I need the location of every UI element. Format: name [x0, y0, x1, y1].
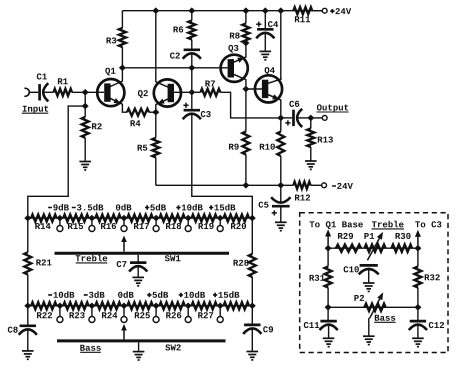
node Q2 base / R7 / C3 [188, 89, 195, 96]
wire R6 to C2 [191, 40, 193, 50]
node R2 / tone network feed [82, 103, 89, 110]
wire C1 to R1 [45, 91, 54, 93]
resistor R7 [192, 81, 221, 96]
switch contact treble -9dB [48, 204, 69, 232]
resistor R30 [392, 233, 413, 252]
capacitor C1 [37, 73, 49, 101]
resistor R17 [127, 215, 153, 229]
capacitor C4 [256, 11, 278, 39]
wire Q1 emitter down to R4 [122, 104, 127, 112]
resistor R1 [54, 78, 73, 96]
resistor R4 [127, 109, 149, 127]
ground C11 [323, 337, 335, 339]
transistor Q3 [221, 45, 248, 82]
wire P1 row [328, 247, 418, 249]
resistor R18 [159, 215, 184, 230]
resistor R32 [414, 248, 439, 307]
resistor R11 [293, 7, 312, 22]
capacitor C6 [285, 101, 302, 127]
wire C5 to ground [280, 206, 282, 222]
resistor R20 [224, 215, 250, 230]
transistor Q1 [97, 68, 124, 107]
wire C12 to ground [417, 325, 419, 338]
capacitor C12 [409, 307, 444, 330]
wire Q1 collector diagonal [108, 81, 123, 88]
switch contact treble +15dB [209, 204, 235, 232]
node treble chain [56, 215, 63, 222]
wire down to Q2 base node [191, 68, 193, 93]
switch SW2 bus [57, 341, 226, 351]
node P1 right [414, 245, 421, 252]
switch contact treble -3.5dB [72, 204, 104, 232]
node output / R13 [307, 115, 314, 122]
wire Q2 collector to rail [155, 11, 157, 82]
wire R3 to node [121, 47, 123, 68]
node bottom rail / R10 C5 [277, 182, 284, 189]
resistor R5 [138, 112, 160, 157]
resistor R13 [307, 118, 333, 147]
wiper P2 [370, 299, 380, 318]
resistor bass chain end [224, 302, 250, 309]
wire rail corner to R3 [121, 11, 123, 28]
wire output node to C6 [281, 117, 292, 119]
node C2 / base line [188, 65, 195, 72]
wire R13 to ground [310, 147, 312, 161]
wire Q3 collector down to node [245, 79, 247, 89]
resistor R21 [24, 218, 51, 306]
capacitor C7 [117, 255, 148, 272]
resistor R6 [174, 11, 196, 40]
ground P2 [363, 335, 375, 337]
wire C8 to ground [27, 330, 29, 351]
wire Q3 emitter diagonal [231, 57, 246, 63]
wire Q1 collector up [121, 68, 123, 82]
wire Q4 collector diagonal [265, 79, 282, 84]
resistor R8 [230, 11, 250, 43]
resistor R29 [336, 233, 361, 252]
wire to terminal [311, 117, 323, 119]
wire base line to Q3 [122, 67, 227, 69]
label To C3 [415, 221, 441, 227]
resistor R3 [107, 28, 126, 47]
terminal +24V [322, 8, 351, 14]
ground C12 [412, 337, 424, 339]
resistor R28 [234, 218, 256, 306]
arrow to Q1 base [327, 236, 329, 249]
wire P2 row [328, 306, 418, 308]
wire bass chain [28, 305, 253, 307]
node treble chain [217, 215, 224, 222]
ground C4 [260, 50, 272, 52]
switch contact bass 0dB [118, 291, 134, 322]
node Q3 collector / Q4 base / R9 [242, 86, 249, 93]
wire -24V bottom rail [156, 184, 294, 186]
resistor R22 [31, 302, 56, 318]
wire R9 to bottom rail [245, 155, 247, 186]
wire R11 to terminal [312, 10, 322, 12]
label Bass SW2 [80, 345, 101, 353]
terminal -24V [322, 183, 353, 189]
node treble chain [121, 215, 128, 222]
wire treble chain [28, 217, 253, 219]
capacitor C11 [304, 307, 338, 330]
wire node to R2 node [84, 92, 86, 106]
node R3 / Q1 collector / base line [119, 65, 126, 72]
ground C7 [132, 276, 144, 278]
potentiometer P2 [354, 295, 385, 311]
wire Q1 base node to treble chain [28, 106, 85, 218]
switch contact treble 0dB [116, 204, 131, 232]
wire Q3 collector diagonal [231, 73, 246, 80]
wire C3 down to treble link [192, 114, 253, 218]
capacitor C8 [8, 306, 37, 335]
resistor R10 [260, 118, 285, 156]
switch contact bass +15dB [213, 291, 239, 322]
label Bass P2 [374, 315, 395, 323]
wire R10 to bottom rail [280, 156, 282, 185]
resistor R23 [63, 302, 88, 318]
resistor R12 [293, 182, 310, 201]
node Q4 emitter / output / R10 [277, 115, 284, 122]
label Treble SW1 [76, 255, 108, 263]
resistor R31 [310, 248, 332, 307]
wire C2 to node [191, 54, 193, 68]
wire P2 wiper to ground [368, 318, 370, 336]
switch contact bass +5dB [147, 291, 168, 322]
node bass chain [249, 303, 256, 310]
switch SW1 bus [55, 253, 230, 261]
label Input [22, 106, 49, 114]
resistor R26 [159, 302, 184, 318]
wire C7 to ground [137, 267, 139, 278]
transistor Q4 [255, 67, 282, 102]
terminal Input jack [24, 88, 29, 96]
ground C9 [247, 351, 259, 353]
capacitor C3 [183, 92, 211, 119]
wire Q4 base [246, 88, 264, 90]
node top rail / R8 [242, 7, 249, 14]
wire Q2 collector diagonal [156, 82, 171, 89]
wire R8 node down to Q3 [245, 43, 247, 58]
switch SW2 wiper arrow [123, 330, 125, 340]
label Treble P1 [372, 221, 405, 229]
resistor R9 [229, 89, 249, 155]
wire SW2 to ground [138, 342, 140, 351]
switch contact bass -10dB [48, 291, 74, 322]
node treble chain [249, 215, 256, 222]
node bass chain [121, 303, 128, 310]
wire C9 to ground [251, 329, 253, 351]
terminal Output [322, 116, 327, 121]
resistor R2 [82, 106, 102, 161]
wire Q1 emitter diagonal [108, 97, 123, 104]
node bass chain [24, 303, 31, 310]
capacitor C9 [243, 306, 273, 334]
node treble chain [153, 215, 160, 222]
ground SW2 [133, 351, 145, 353]
node top rail / Q4 collector [277, 7, 284, 14]
switch contact treble +10dB [176, 204, 202, 232]
node bass chain [56, 303, 63, 310]
node top rail / R6 [188, 7, 195, 14]
switch SW1 wiper arrow [123, 241, 125, 252]
wire C6 to output terminal [298, 117, 308, 119]
node P1 left [325, 245, 332, 252]
switch contact treble +5dB [145, 204, 166, 232]
resistor R19 [192, 215, 217, 230]
capacitor C10 [344, 265, 379, 274]
resistor R24 [95, 302, 121, 318]
resistor R15 [63, 215, 88, 230]
node input / Q1 base [82, 89, 89, 96]
wire Q2 base [171, 91, 192, 93]
label Output [316, 104, 348, 112]
node P2 left [325, 304, 332, 311]
switch contact bass +10dB [179, 291, 205, 322]
resistor R27 [192, 302, 217, 318]
potentiometer P1 [364, 233, 385, 252]
node bottom rail / R9 [242, 182, 249, 189]
node treble chain [88, 215, 95, 222]
node bass chain [185, 303, 192, 310]
wire R7 to output line [220, 92, 280, 118]
wire R5 to bottom rail [155, 157, 157, 185]
node emitter / R4 / R5 [152, 109, 159, 116]
capacitor C5 [259, 185, 291, 215]
wire Q4 collector to rail [280, 11, 282, 80]
dashed box P1 P2 detail [300, 213, 448, 353]
node bass chain [153, 303, 160, 310]
node treble chain [185, 215, 192, 222]
node bass chain [88, 303, 95, 310]
ground C5 [275, 221, 287, 223]
wire R12 to terminal [311, 184, 322, 186]
node P2 right [414, 304, 421, 311]
label To Q1 Base [310, 221, 363, 229]
wire Q4 emitter diagonal [265, 94, 281, 101]
node R8 / Q3 emitter [242, 40, 249, 47]
ground R13 [305, 160, 317, 162]
ground C8 [22, 350, 34, 352]
transistor Q2 [138, 79, 181, 106]
wire Q4 emitter down [280, 100, 282, 118]
node treble chain [24, 215, 31, 222]
wire input to C1 [30, 91, 39, 93]
wire Q2 emitter down [155, 104, 157, 112]
resistor R25 [127, 302, 153, 318]
wire C11 to ground [328, 325, 330, 338]
arrow to C3 [417, 236, 419, 248]
switch contact bass -3dB [84, 291, 105, 322]
wire R1 to Q1 base [72, 91, 104, 93]
wire Q2 emitter diagonal [156, 98, 171, 105]
ground R2 [79, 161, 91, 163]
resistor R14 [31, 215, 56, 229]
wire R4 to emitter node [149, 111, 156, 113]
node top rail / C4 [262, 7, 269, 14]
node top rail / Q2 collector [152, 7, 159, 14]
wire C10 to ground [368, 270, 370, 283]
wiper P1 [367, 238, 379, 260]
wire C4 to ground [264, 33, 266, 51]
wire +24V top rail [122, 10, 322, 12]
ground C10 [363, 282, 375, 284]
capacitor C2 [170, 50, 201, 59]
resistor R16 [95, 215, 121, 230]
node bass chain [217, 303, 224, 310]
